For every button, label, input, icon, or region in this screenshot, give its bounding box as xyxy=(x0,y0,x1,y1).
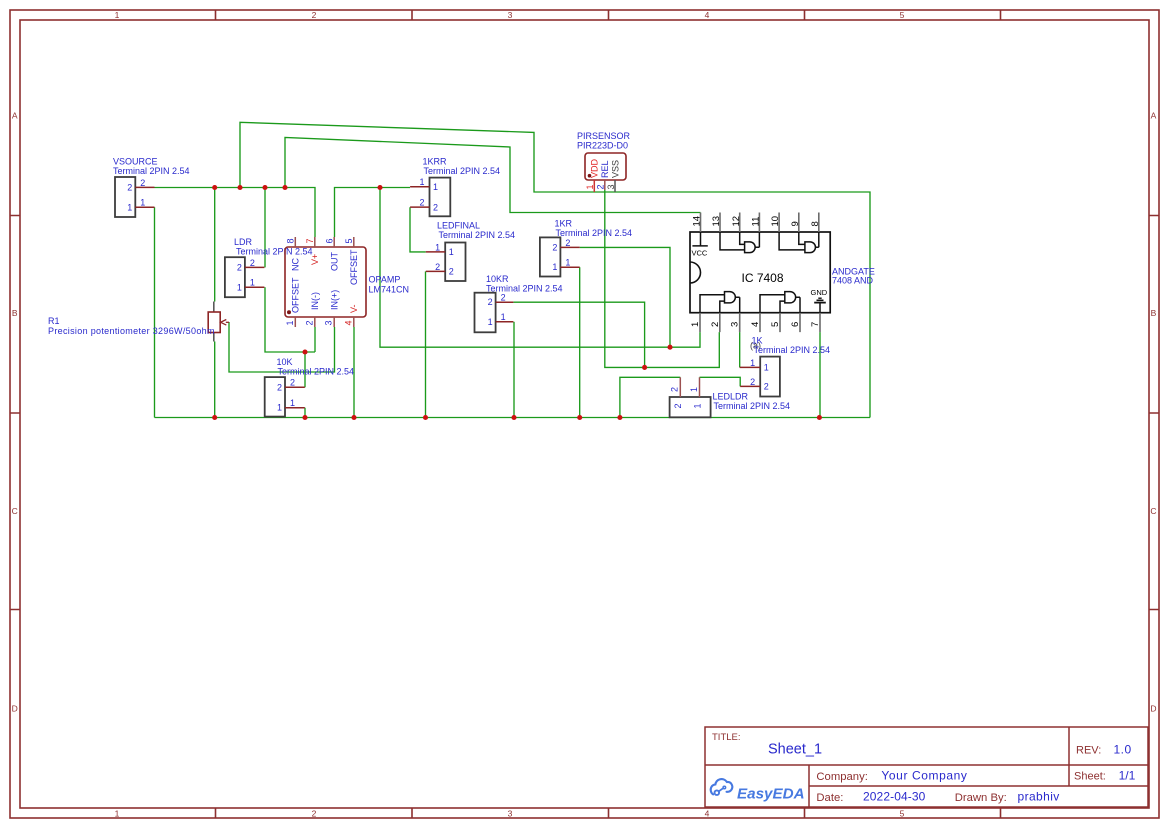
svg-text:Terminal 2PIN 2.54: Terminal 2PIN 2.54 xyxy=(113,166,190,176)
terminal 10KR xyxy=(475,274,563,332)
LEDLDR pin 1 stub xyxy=(699,377,701,397)
svg-text:1KRR: 1KRR xyxy=(423,156,448,166)
svg-text:4: 4 xyxy=(705,10,710,20)
svg-text:OPAMP: OPAMP xyxy=(369,275,401,285)
LDR pin 2 stub xyxy=(245,266,265,268)
svg-text:1: 1 xyxy=(764,363,769,373)
ruler numbers bottom xyxy=(115,809,905,819)
svg-text:1: 1 xyxy=(585,184,595,189)
R1 body xyxy=(208,312,220,333)
terminal 1K xyxy=(740,336,830,397)
svg-text:D: D xyxy=(1150,704,1156,714)
svg-text:B: B xyxy=(1151,308,1157,318)
svg-text:1: 1 xyxy=(115,10,120,20)
wire IC.7 to rail xyxy=(819,332,821,417)
VSOURCE pin numbers xyxy=(127,178,145,213)
IC gate C xyxy=(700,292,740,313)
svg-text:1.0: 1.0 xyxy=(1114,743,1132,757)
ruler ticks bottom xyxy=(216,808,1001,818)
ruler numbers top xyxy=(115,10,905,20)
svg-text:1: 1 xyxy=(501,312,506,322)
IC notch xyxy=(690,262,701,283)
svg-text:2: 2 xyxy=(127,182,132,192)
1KR pin numbers xyxy=(552,238,570,272)
10KR pin 1 stub xyxy=(496,321,514,323)
terminal LEDLDR xyxy=(670,377,790,417)
pir pin stubs 1,2,3 xyxy=(593,180,595,192)
svg-text:Sheet:: Sheet: xyxy=(1074,771,1106,783)
svg-text:1: 1 xyxy=(435,242,440,252)
svg-text:3: 3 xyxy=(508,809,513,819)
wire LDR.1 to opamp IN- xyxy=(265,287,315,352)
op-amp pin numbers xyxy=(285,238,354,325)
svg-text:11: 11 xyxy=(751,217,762,227)
sensor PIRSENSOR PIR223D-D0 xyxy=(577,131,631,192)
svg-text:EasyEDA: EasyEDA xyxy=(737,786,805,803)
svg-text:2: 2 xyxy=(552,242,557,252)
svg-text:2: 2 xyxy=(433,202,438,212)
svg-text:R1: R1 xyxy=(48,316,60,326)
1KR pin 1 stub xyxy=(560,266,579,268)
svg-text:1: 1 xyxy=(449,247,454,257)
wire VSOURCE.2 supply rail xyxy=(155,188,316,238)
svg-text:NC: NC xyxy=(290,258,300,271)
svg-text:2: 2 xyxy=(596,184,606,189)
ruler letters left xyxy=(12,111,18,714)
svg-text:VSOURCE: VSOURCE xyxy=(113,157,158,167)
IC pins 1-7 stubs xyxy=(700,313,820,332)
svg-text:A: A xyxy=(12,111,18,121)
svg-text:Terminal 2PIN 2.54: Terminal 2PIN 2.54 xyxy=(424,166,501,176)
svg-text:OFFSET: OFFSET xyxy=(290,277,300,313)
op-amp pin 1 marker xyxy=(287,310,291,314)
svg-text:Terminal 2PIN 2.54: Terminal 2PIN 2.54 xyxy=(754,345,831,355)
svg-text:VSS: VSS xyxy=(611,160,621,178)
svg-text:2: 2 xyxy=(304,320,314,325)
svg-text:3: 3 xyxy=(324,320,334,325)
svg-text:2: 2 xyxy=(435,262,440,272)
PIRSENSOR body xyxy=(585,153,626,180)
svg-text:D: D xyxy=(12,704,18,714)
svg-text:1: 1 xyxy=(237,282,242,292)
svg-text:1: 1 xyxy=(692,403,702,408)
svg-text:TITLE:: TITLE: xyxy=(712,732,741,743)
svg-text:13: 13 xyxy=(711,216,722,227)
IC gate B xyxy=(779,232,819,253)
svg-text:5: 5 xyxy=(344,238,354,243)
LEDFINAL pin 1 stub xyxy=(426,251,445,253)
svg-text:2: 2 xyxy=(488,297,493,307)
svg-text:8: 8 xyxy=(810,221,821,226)
10K pin 1 stub xyxy=(285,407,305,409)
IC pin numbers top xyxy=(692,216,821,227)
LEDFINAL pin numbers xyxy=(435,242,454,276)
svg-text:LM741CN: LM741CN xyxy=(369,285,410,295)
svg-text:2: 2 xyxy=(449,267,454,277)
svg-text:2: 2 xyxy=(277,382,282,392)
svg-text:Drawn By:: Drawn By: xyxy=(955,792,1007,804)
svg-text:PIRSENSOR: PIRSENSOR xyxy=(577,131,631,141)
svg-text:2022-04-30: 2022-04-30 xyxy=(863,789,926,803)
svg-text:7: 7 xyxy=(305,238,315,243)
title block values xyxy=(768,742,1136,804)
svg-text:Precision potentiometer 3296W/: Precision potentiometer 3296W/50ohm xyxy=(48,326,215,336)
svg-text:LEDFINAL: LEDFINAL xyxy=(437,221,480,231)
wire 10KR.1 to rail xyxy=(513,322,515,418)
title block labels xyxy=(712,732,1106,804)
wire 1KR.1 to rail xyxy=(579,267,581,417)
wire VSOURCE.1 down xyxy=(154,207,156,417)
svg-text:7408 AND: 7408 AND xyxy=(832,276,874,286)
ruler ticks right xyxy=(1149,216,1159,610)
title block xyxy=(705,727,1148,807)
wire R1 top branch xyxy=(214,188,216,302)
svg-text:6: 6 xyxy=(324,238,334,243)
svg-text:5: 5 xyxy=(900,809,905,819)
1KR pin 2 stub xyxy=(560,246,579,248)
LEDLDR pin numbers xyxy=(670,387,703,409)
svg-text:2: 2 xyxy=(237,262,242,272)
wire slant supply to IC pin14 xyxy=(285,137,701,212)
svg-text:7: 7 xyxy=(810,322,821,327)
svg-text:8: 8 xyxy=(286,238,296,243)
svg-text:Date:: Date: xyxy=(816,792,843,804)
svg-text:10KR: 10KR xyxy=(486,274,509,284)
10KR pin 2 stub xyxy=(496,301,514,303)
wire LEDFINAL.2 to rail xyxy=(425,271,427,417)
wire R1 bottom to rail xyxy=(214,342,216,418)
svg-text:Terminal 2PIN 2.54: Terminal 2PIN 2.54 xyxy=(714,401,791,411)
svg-text:2: 2 xyxy=(710,322,721,327)
ruler ticks top xyxy=(216,10,1001,20)
svg-text:VCC: VCC xyxy=(692,249,708,258)
wire 10KR.2 branch xyxy=(513,302,644,367)
svg-text:1: 1 xyxy=(689,387,699,392)
svg-text:GND: GND xyxy=(811,288,828,297)
svg-text:2: 2 xyxy=(673,403,683,408)
EasyEDA logo xyxy=(711,779,805,802)
svg-text:1: 1 xyxy=(690,322,701,327)
svg-text:A: A xyxy=(1151,111,1157,121)
IC pins 14-8 stubs xyxy=(701,213,819,233)
terminal 1KRR xyxy=(410,156,500,216)
svg-text:2: 2 xyxy=(565,238,570,248)
svg-text:REV:: REV: xyxy=(1076,745,1101,757)
PIRSENSOR pin 1 marker xyxy=(588,174,592,178)
node OUT net junction xyxy=(667,345,672,350)
svg-text:1: 1 xyxy=(285,320,295,325)
svg-text:VDD: VDD xyxy=(590,158,600,178)
svg-text:prabhiv: prabhiv xyxy=(1018,789,1060,803)
wire LEDLDR.1 to 1K.2 xyxy=(700,377,741,386)
svg-text:2: 2 xyxy=(250,258,255,268)
wire slant supply to PIR VDD and down right side xyxy=(240,122,870,417)
svg-text:6: 6 xyxy=(790,322,801,327)
IC U1 7408 xyxy=(690,213,875,333)
svg-text:1: 1 xyxy=(419,177,424,187)
svg-text:4: 4 xyxy=(343,320,353,325)
10KR pin numbers xyxy=(488,293,506,327)
svg-text:1: 1 xyxy=(488,317,493,327)
wire PIR REL to IC pin2 xyxy=(605,190,720,367)
op-amp pin stubs top 8,7,6,5 xyxy=(295,237,354,247)
wire OPAMP.2 stub-down xyxy=(314,327,316,352)
svg-text:LEDLDR: LEDLDR xyxy=(713,392,749,402)
svg-text:V+: V+ xyxy=(310,254,320,265)
LDR pin numbers xyxy=(237,258,255,293)
node opamp IN- junction xyxy=(302,349,307,354)
wire LDR.2 branch xyxy=(264,188,266,268)
svg-text:C: C xyxy=(12,506,18,516)
svg-text:Terminal 2PIN 2.54: Terminal 2PIN 2.54 xyxy=(486,284,563,294)
svg-text:10K: 10K xyxy=(277,357,293,367)
svg-text:12: 12 xyxy=(731,216,742,227)
svg-text:3: 3 xyxy=(730,322,741,327)
1K pin 1 stub xyxy=(740,366,761,368)
10K pin numbers xyxy=(277,378,295,413)
svg-text:REL: REL xyxy=(600,160,610,178)
wire IC.3 to 1K.1 xyxy=(739,332,741,367)
svg-text:1: 1 xyxy=(277,403,282,413)
svg-text:IC 7408: IC 7408 xyxy=(741,271,783,285)
op-amp pin names xyxy=(290,249,359,313)
svg-text:2: 2 xyxy=(290,378,295,388)
svg-text:2: 2 xyxy=(419,198,424,208)
svg-text:IN(+): IN(+) xyxy=(329,290,339,310)
wire OPAMP OUT to 1KRR.1 xyxy=(335,188,411,238)
svg-text:Sheet_1: Sheet_1 xyxy=(768,742,822,758)
svg-text:1: 1 xyxy=(290,398,295,408)
node supply rail junctions xyxy=(212,185,217,190)
wire 1KR.2 branch to OUT net xyxy=(580,247,670,347)
svg-text:3: 3 xyxy=(508,10,513,20)
IC U1 7408 body xyxy=(690,232,830,313)
terminal 1KR xyxy=(540,219,632,277)
wire 10K.2 branch up xyxy=(304,352,306,387)
svg-text:10: 10 xyxy=(770,216,781,227)
1K pin 2 stub xyxy=(740,385,760,387)
svg-text:Terminal 2PIN 2.54: Terminal 2PIN 2.54 xyxy=(236,247,313,257)
svg-text:2: 2 xyxy=(312,809,317,819)
svg-text:Terminal 2PIN 2.54: Terminal 2PIN 2.54 xyxy=(439,230,516,240)
svg-text:5: 5 xyxy=(770,322,781,327)
potentiometer R1 xyxy=(48,302,229,342)
svg-text:1: 1 xyxy=(750,358,755,368)
ruler letters right xyxy=(1150,111,1156,714)
wire OUT net down to IC pin1 xyxy=(380,188,700,348)
svg-text:Terminal 2PIN 2.54: Terminal 2PIN 2.54 xyxy=(278,367,355,377)
R1 wiper shaft xyxy=(226,321,229,323)
wire OPAMP.4 V- to rail xyxy=(353,327,355,418)
IC gate D xyxy=(760,292,800,313)
wire R1 wiper to opamp IN+ xyxy=(229,322,335,372)
VSOURCE pin 1 stub xyxy=(135,206,154,208)
terminal 10K xyxy=(265,357,354,417)
svg-text:C: C xyxy=(1150,506,1156,516)
10K pin 2 stub xyxy=(285,386,305,388)
svg-text:2: 2 xyxy=(501,293,506,303)
1KRR pin numbers xyxy=(419,177,438,212)
node ground rail junctions xyxy=(212,415,217,420)
svg-text:1: 1 xyxy=(115,809,120,819)
svg-text:V-: V- xyxy=(349,304,359,313)
op-amp U1 body xyxy=(285,247,366,317)
svg-text:4: 4 xyxy=(750,322,761,327)
svg-text:4: 4 xyxy=(705,809,710,819)
R1 leads xyxy=(213,302,215,342)
IC GND symbol xyxy=(814,298,826,313)
svg-text:LDR: LDR xyxy=(234,237,253,247)
svg-text:2: 2 xyxy=(750,377,755,387)
svg-text:PIR223D-D0: PIR223D-D0 xyxy=(577,140,628,150)
IC gate A xyxy=(720,232,759,253)
svg-text:Your Company: Your Company xyxy=(881,768,967,782)
svg-text:1KR: 1KR xyxy=(555,219,573,229)
R1 wiper arrow xyxy=(221,320,227,326)
1K pin numbers xyxy=(750,358,769,392)
svg-text:2: 2 xyxy=(140,178,145,188)
svg-text:1: 1 xyxy=(552,262,557,272)
svg-text:14: 14 xyxy=(692,216,703,227)
svg-text:IN(-): IN(-) xyxy=(310,292,320,310)
wire 10K.1 to rail xyxy=(304,408,306,418)
VSOURCE pin 2 stub xyxy=(135,186,154,188)
wire LEDLDR.2 to rail xyxy=(620,377,680,417)
svg-text:B: B xyxy=(12,308,18,318)
svg-text:2: 2 xyxy=(312,10,317,20)
1KRR pin 2 stub xyxy=(410,206,429,208)
LDR pin 1 stub xyxy=(245,286,265,288)
LEDFINAL pin 2 stub xyxy=(426,270,445,272)
svg-text:1: 1 xyxy=(565,258,570,268)
IC pin numbers bottom xyxy=(690,322,821,327)
IC VCC pin bar xyxy=(692,232,707,246)
svg-text:2: 2 xyxy=(670,387,680,392)
svg-text:1: 1 xyxy=(433,182,438,192)
ruler ticks left xyxy=(10,216,20,610)
svg-text:3: 3 xyxy=(606,184,616,189)
svg-text:Terminal 2PIN 2.54: Terminal 2PIN 2.54 xyxy=(556,228,633,238)
wire 1KRR.2 to LEDFINAL.1 xyxy=(410,207,426,252)
junction dots xyxy=(212,185,822,420)
svg-text:2: 2 xyxy=(764,382,769,392)
terminal LDR xyxy=(225,237,313,297)
svg-text:9: 9 xyxy=(790,221,801,226)
svg-text:1/1: 1/1 xyxy=(1119,769,1136,783)
wire bottom ground rail xyxy=(155,417,871,419)
terminal LEDFINAL xyxy=(426,221,515,282)
svg-text:OFFSET: OFFSET xyxy=(349,249,359,285)
node IC pin2 net junction xyxy=(642,365,647,370)
svg-text:OUT: OUT xyxy=(329,252,339,272)
svg-text:Company:: Company: xyxy=(816,771,868,783)
svg-text:1: 1 xyxy=(140,198,145,208)
op-amp pin stubs bottom 1,2,3,4 xyxy=(295,317,354,327)
svg-text:5: 5 xyxy=(900,10,905,20)
svg-text:1: 1 xyxy=(250,278,255,288)
terminal VSOURCE xyxy=(113,157,190,218)
svg-text:1: 1 xyxy=(127,202,132,212)
1KRR pin 1 stub xyxy=(410,186,429,188)
LEDLDR pin 2 stub xyxy=(679,377,681,397)
op-amp OPAMP LM741CN xyxy=(285,237,409,327)
